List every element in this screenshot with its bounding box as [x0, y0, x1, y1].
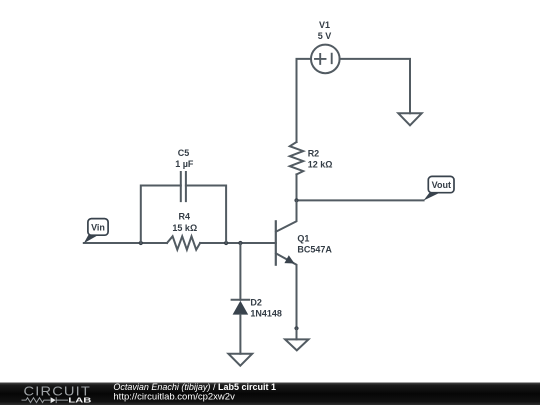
wire node to Vout flag: [297, 199, 424, 201]
value label 1 µF: [175, 159, 194, 169]
svg-text:R2: R2: [308, 148, 320, 158]
svg-text:Q1: Q1: [297, 233, 309, 243]
node flag Vin: [84, 219, 108, 244]
value label 5 V: [318, 31, 332, 41]
node C5 right junction dot: [224, 241, 228, 245]
svg-text:LAB: LAB: [68, 396, 91, 405]
value label 12 kΩ: [308, 159, 333, 169]
logo LAB wordmark: [68, 396, 91, 405]
node Vout junction dot: [294, 198, 298, 202]
svg-text:V1: V1: [319, 20, 330, 30]
node emitter junction dot: [294, 326, 298, 330]
node C5 left junction dot: [139, 241, 143, 245]
footer url line: [113, 392, 235, 403]
label R4: [179, 211, 191, 221]
svg-text:Vin: Vin: [91, 223, 105, 233]
wire V1 left lead to vertical drop: [297, 59, 311, 142]
svg-text:R4: R4: [179, 211, 191, 221]
voltage source V1: [311, 45, 340, 74]
svg-text:15 kΩ: 15 kΩ: [172, 223, 197, 233]
resistor R2: [290, 142, 303, 174]
footer bar: [0, 383, 540, 405]
wire C5 left branch: [141, 186, 181, 244]
svg-text:5 V: 5 V: [318, 31, 332, 41]
node flag Vout: [423, 176, 454, 200]
wire base node to diode D2: [239, 243, 241, 300]
capacitor C5: [181, 172, 186, 201]
value label BC547A: [297, 244, 332, 254]
value label 1N4148: [250, 308, 282, 318]
svg-text:C5: C5: [178, 148, 190, 158]
svg-text:BC547A: BC547A: [297, 244, 332, 254]
wire R2 bottom to collector node: [296, 174, 298, 200]
svg-text:1N4148: 1N4148: [250, 308, 282, 318]
label V1: [319, 20, 330, 30]
ground (emitter): [285, 339, 308, 350]
transistor Q1: [276, 200, 297, 328]
label R2: [308, 148, 320, 158]
ground (top right): [398, 113, 421, 125]
logo resistor-diode glyph: [22, 397, 69, 403]
label D2: [250, 298, 262, 308]
svg-text:D2: D2: [250, 298, 262, 308]
wire C5 right branch: [186, 186, 226, 244]
logo CIRCUIT wordmark: [24, 385, 92, 399]
svg-text:1 µF: 1 µF: [175, 159, 194, 169]
svg-text:Vout: Vout: [432, 180, 451, 190]
wire V1 right lead across top: [340, 59, 410, 113]
label Q1: [297, 233, 309, 243]
diode D2: [232, 300, 250, 315]
resistor R4: [167, 236, 200, 249]
wire base: Vin flag to base bar: [84, 242, 276, 244]
label C5: [178, 148, 190, 158]
wire diode to ground: [239, 315, 241, 354]
value label 15 kΩ: [172, 223, 197, 233]
svg-text:12 kΩ: 12 kΩ: [308, 159, 333, 169]
node D2 junction dot: [238, 241, 242, 245]
ground (diode): [228, 354, 252, 366]
svg-text:http://circuitlab.com/cp2xw2v: http://circuitlab.com/cp2xw2v: [113, 392, 235, 403]
wire emitter to ground: [296, 328, 298, 339]
footer title line: [113, 382, 276, 392]
